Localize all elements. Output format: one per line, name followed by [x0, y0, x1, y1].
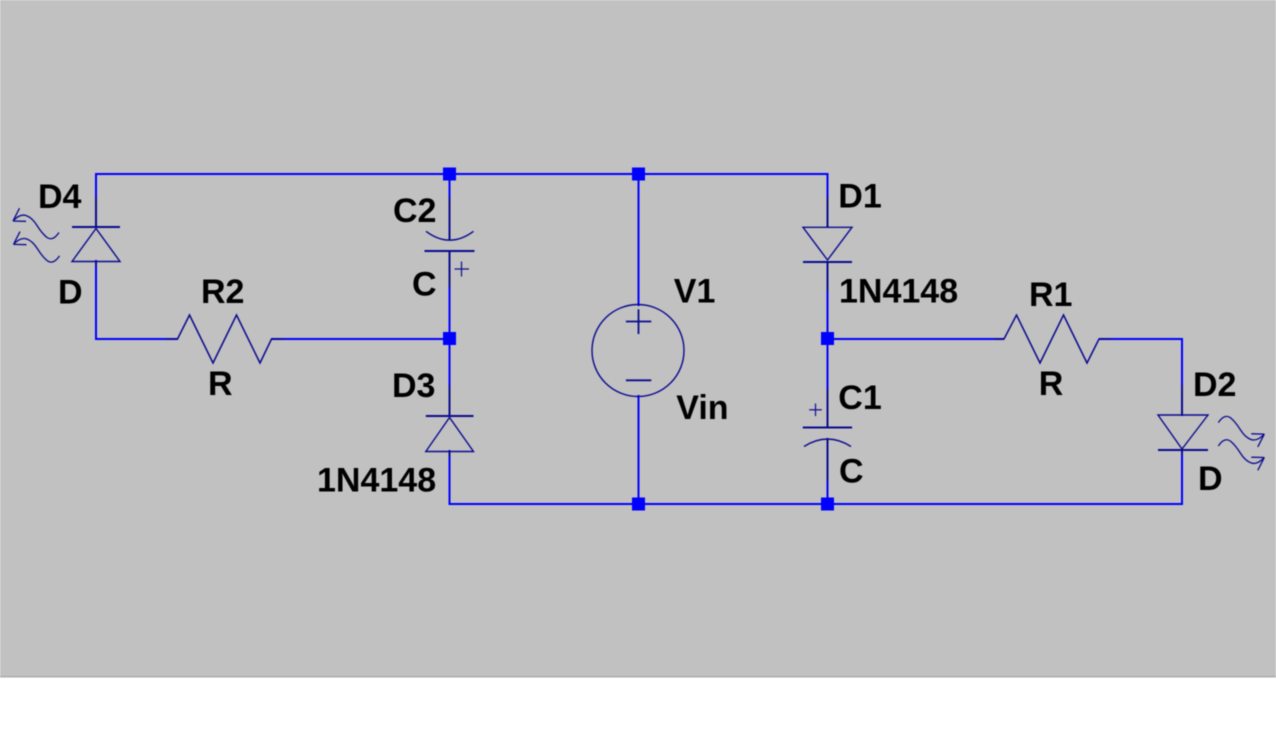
svg-text:C: C	[839, 453, 864, 491]
wire junction to R1	[827, 338, 1005, 340]
wire left vertical upper	[95, 173, 97, 228]
svg-text:C: C	[412, 266, 437, 304]
wire bottom horizontal	[449, 503, 1184, 505]
wire V1 top	[638, 173, 640, 306]
junction mid C2-D3	[443, 332, 456, 345]
svg-text:R: R	[1039, 365, 1064, 403]
wire C2 to D3	[449, 250, 451, 417]
junction bottom C1	[821, 498, 834, 511]
wire R1 to corner	[1099, 338, 1183, 340]
white strip	[0, 678, 1276, 754]
wire D2 bottom	[1181, 449, 1183, 505]
boundary shade	[0, 676, 1276, 678]
svg-text:D: D	[1198, 460, 1223, 498]
svg-text:D4: D4	[38, 178, 82, 216]
svg-text:D1: D1	[838, 178, 881, 216]
svg-text:R2: R2	[201, 273, 244, 311]
wire left vertical lower	[95, 260, 97, 340]
D2 light arrow upper	[1218, 416, 1264, 447]
svg-text:Vin: Vin	[676, 389, 728, 427]
resistor R1	[994, 315, 1111, 363]
junction bottom V1	[632, 498, 645, 511]
diode D4	[72, 197, 120, 266]
junction mid D1-C1	[821, 332, 834, 345]
resistor R2	[166, 315, 284, 363]
svg-text:D3: D3	[392, 367, 435, 405]
wire D1 to C1	[827, 261, 829, 428]
wire top horizontal	[95, 173, 829, 175]
svg-text:C2: C2	[393, 192, 436, 230]
svg-text:C1: C1	[838, 379, 881, 417]
D4 light arrow upper	[13, 208, 59, 239]
svg-text:V1: V1	[674, 273, 716, 311]
svg-text:1N4148: 1N4148	[839, 273, 958, 311]
svg-text:R1: R1	[1029, 276, 1072, 314]
wire C2 top lead	[449, 173, 451, 240]
wire D1 top lead	[827, 173, 829, 228]
capacitor C2	[425, 198, 475, 287]
diode D1	[803, 197, 852, 291]
diode D3	[426, 386, 474, 457]
wire left horizontal to R2	[95, 338, 178, 340]
wire R2 to junction	[271, 338, 451, 340]
wire C1 bottom	[827, 438, 829, 505]
voltage source V1	[592, 305, 684, 397]
junction top C2	[443, 168, 456, 181]
svg-text:D: D	[58, 274, 83, 312]
D2 light arrow lower	[1218, 440, 1264, 471]
svg-text:D2: D2	[1193, 366, 1236, 404]
diode D2	[1158, 385, 1208, 455]
wire D3 bottom	[449, 450, 451, 505]
capacitor C1	[803, 389, 852, 481]
junction top V1	[632, 168, 645, 181]
svg-text:1N4148: 1N4148	[317, 462, 436, 500]
wire V1 bottom	[638, 395, 640, 505]
svg-text:R: R	[208, 365, 233, 403]
wire D2 top	[1181, 338, 1183, 416]
D4 light arrow lower	[14, 232, 60, 263]
